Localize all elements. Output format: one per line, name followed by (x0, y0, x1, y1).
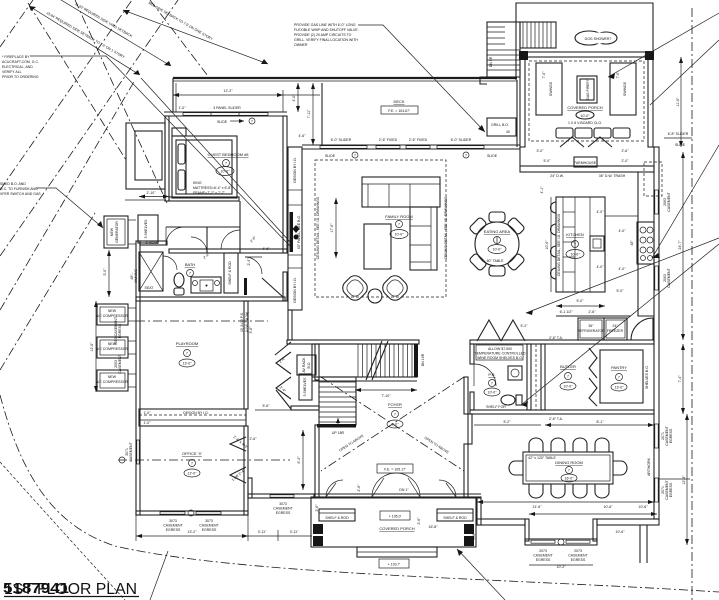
corridor west line (527, 344, 531, 410)
svg-text:2'-6": 2'-6" (589, 310, 597, 314)
shelf rod closet (224, 253, 238, 293)
svg-text:GRILL. VERIFY FINAL LOCATION W: GRILL. VERIFY FINAL LOCATION WITH (294, 38, 358, 42)
svg-text:12'-3": 12'-3" (682, 475, 686, 485)
deck north edge thick (173, 77, 517, 79)
porch north wall (520, 52, 653, 57)
svg-text:4'-0": 4'-0" (292, 94, 296, 102)
butler block north wall (470, 340, 654, 344)
svg-text:10'-6": 10'-6" (639, 505, 649, 509)
office centerline (118, 459, 290, 461)
guest closet south wall / bath top (166, 226, 240, 228)
fireplace black panel (290, 212, 294, 252)
svg-text:7: 7 (186, 352, 188, 356)
svg-text:5'-6": 5'-6" (472, 532, 476, 540)
svg-text:+ 105.0': + 105.0' (389, 515, 402, 519)
mud shelves box (299, 374, 312, 400)
mud av rack box (297, 355, 316, 375)
right closet door arc (439, 480, 456, 497)
svg-text:42" x 120" TABLE: 42" x 120" TABLE (528, 456, 556, 460)
svg-text:ALLOW $7,500: ALLOW $7,500 (488, 347, 512, 351)
corridor dashed center (535, 344, 537, 410)
butler dim 8-1 (545, 424, 654, 426)
guest east wall (283, 116, 287, 253)
svg-text:6'-4": 6'-4" (297, 456, 301, 464)
dining south wall east segment (597, 519, 659, 525)
svg-text:7'-4": 7'-4" (678, 375, 682, 383)
dining west wall stub (468, 414, 472, 444)
svg-text:ELECTRICAL, AND: ELECTRICAL, AND (2, 65, 33, 69)
stair block north wall (287, 340, 419, 344)
svg-text:DESIGN BY I.D.: DESIGN BY I.D. (183, 411, 208, 415)
main house NE corner vertical (deck to family wall) (516, 80, 518, 147)
sofa sectional right leg (410, 207, 437, 270)
svg-text:EGRESS: EGRESS (571, 558, 586, 562)
stool 2 (551, 224, 557, 235)
svg-text:NEW: NEW (110, 227, 114, 236)
stair upper flight outline (312, 344, 417, 377)
svg-text:2'-6": 2'-6" (357, 484, 361, 492)
family interior dim 17-6 (335, 198, 337, 258)
island sink (590, 236, 604, 251)
svg-text:7: 7 (251, 120, 253, 124)
svg-text:5'-6": 5'-6" (263, 404, 271, 408)
svg-text:1'-0": 1'-0" (144, 411, 152, 415)
stair break line (366, 341, 382, 380)
leader line near title (150, 551, 168, 600)
west exterior wall (136, 241, 140, 515)
svg-text:3 PANEL SLIDER: 3 PANEL SLIDER (213, 106, 241, 110)
svg-text:CASEMENT: CASEMENT (667, 267, 671, 287)
svg-text:FOYER: FOYER (388, 402, 402, 407)
stool 3 (551, 246, 557, 257)
bath block south wall (136, 297, 285, 301)
svg-text:13'-0": 13'-0" (615, 386, 625, 390)
svg-text:KITCHEN: KITCHEN (566, 232, 584, 237)
svg-text:ARTWORK: ARTWORK (647, 457, 651, 475)
svg-text:6'-0" SLIDER: 6'-0" SLIDER (331, 138, 352, 142)
svg-text:2'-10": 2'-10" (147, 191, 157, 195)
svg-text:PLAYROOM: PLAYROOM (176, 341, 198, 346)
svg-text:GRILL B.O.: GRILL B.O. (491, 123, 509, 127)
svg-text:7'-0": 7'-0" (542, 71, 546, 79)
compressor 1 (97, 304, 128, 325)
svg-text:SHELVES B.O.: SHELVES B.O. (645, 365, 649, 389)
svg-text:8'-1": 8'-1" (597, 420, 605, 424)
office double door zigzag upper (230, 437, 246, 451)
east mid dim 24-7 (682, 152, 684, 340)
svg-text:2'-6": 2'-6" (250, 437, 258, 441)
svg-text:4'-1": 4'-1" (540, 186, 544, 194)
front wall left segment (248, 494, 314, 498)
left shelf rod closet (319, 509, 355, 521)
svg-text:P.R.: P.R. (488, 372, 495, 377)
dim tie east (659, 478, 690, 480)
deck west edge (172, 78, 174, 112)
svg-text:F.E. = 105.17': F.E. = 105.17' (384, 468, 406, 472)
leader right edge to firepit (608, 13, 719, 77)
kitchen island outer (556, 197, 605, 292)
built-in window seat outer (126, 123, 165, 189)
wall from office to porch vertical (248, 478, 252, 498)
swing right (610, 63, 636, 115)
svg-text:7: 7 (189, 272, 191, 276)
property curve bottom left short (0, 462, 125, 600)
svg-text:2'-6" FIXED: 2'-6" FIXED (379, 138, 398, 142)
family east slider label (655, 146, 658, 148)
svg-text:B.O.: B.O. (307, 361, 311, 368)
svg-text:7: 7 (567, 375, 569, 379)
dim 6-4 vertical (302, 430, 304, 490)
svg-text:NEW: NEW (108, 375, 117, 379)
svg-text:10'-0": 10'-0" (564, 385, 574, 389)
svg-text:SHELF & ROD: SHELF & ROD (228, 261, 232, 285)
lounge chair right (379, 272, 410, 303)
east wall window 4 (655, 478, 658, 502)
setback line F2a2 (dash-dot crossing builtin) (75, 0, 167, 203)
long diagonal leader through guest bed to fireplace corner (141, 78, 291, 243)
svg-text:AV RACK: AV RACK (302, 357, 306, 373)
svg-text:40: 40 (506, 130, 510, 134)
svg-text:FREEZER: FREEZER (607, 329, 624, 333)
guest west wall (165, 116, 169, 201)
kitchen dashed upper cabinet (644, 162, 662, 196)
svg-text:CASEMENT: CASEMENT (533, 554, 553, 558)
svg-text:5'-0": 5'-0" (103, 268, 107, 276)
svg-text:4'-6": 4'-6" (263, 247, 271, 251)
mud west wall (315, 344, 319, 380)
compressor 3 (97, 370, 128, 391)
porch outline (311, 497, 476, 547)
porch south steps v-shapes (560, 137, 584, 147)
lounge chair left (339, 272, 370, 303)
grill box (487, 118, 516, 136)
patio lines below se wall (639, 525, 641, 563)
landing small steps left (480, 77, 487, 84)
svg-text:BUTLER: BUTLER (560, 364, 576, 369)
setback line F2b (dash-dot crossing) (150, 0, 211, 80)
svg-text:3'-11": 3'-11" (290, 530, 299, 534)
front step (357, 547, 437, 557)
dining chairs top row (529, 438, 609, 452)
family room north wall (302, 144, 520, 146)
svg-text:36" D.W. TRASH: 36" D.W. TRASH (599, 174, 626, 178)
svg-text:A/C COMPRESSOR: A/C COMPRESSOR (96, 380, 129, 384)
stool 1 (551, 202, 557, 213)
svg-text:FAMILY ROOM: FAMILY ROOM (385, 214, 412, 219)
svg-text:4'-0": 4'-0" (597, 210, 605, 214)
svg-text:OWNER: OWNER (294, 43, 308, 47)
svg-text:EGRESS: EGRESS (669, 482, 673, 497)
svg-text:3'-0": 3'-0" (537, 149, 545, 153)
elevation box 105 (380, 511, 410, 520)
office right wall (244, 426, 248, 515)
leader from generator note to generator (36, 188, 103, 228)
leader porch corner to bottom (457, 549, 505, 600)
window circle tag (249, 118, 255, 124)
guest bed platform (172, 136, 237, 198)
svg-text:7: 7 (491, 382, 493, 386)
svg-text:4'-0": 4'-0" (619, 267, 627, 271)
built-in window seat inner (135, 131, 162, 180)
svg-text:+ 103.7': + 103.7' (388, 563, 401, 567)
setback line F2a (dash-dot crossing) (28, 3, 126, 160)
svg-text:12'-6": 12'-6" (90, 342, 94, 352)
sofa sectional top (362, 177, 440, 207)
swing left (536, 63, 562, 115)
svg-text:2'-6": 2'-6" (315, 504, 319, 512)
west window office (137, 440, 139, 464)
pr toilet (501, 395, 515, 405)
svg-text:BATH: BATH (185, 262, 195, 267)
svg-text:13'-2": 13'-2" (188, 530, 198, 534)
5 shelves closet (138, 215, 158, 243)
svg-text:4'-0": 4'-0" (597, 265, 605, 269)
island cabinet divisions (562, 197, 564, 292)
svg-text:3073: 3073 (169, 519, 177, 523)
shower (139, 252, 163, 291)
right vertical property dashdot (691, 8, 693, 600)
svg-text:CASEMENT: CASEMENT (568, 554, 588, 558)
leader from gas note to grill (358, 25, 485, 132)
east counter edge (638, 172, 654, 316)
top dim line 12-2 (173, 94, 283, 96)
east wall window 1 (655, 190, 658, 214)
svg-text:G.C. TO FURNISH AND: G.C. TO FURNISH AND (0, 187, 38, 191)
guest room tag circle (223, 160, 230, 167)
svg-text:5'-0": 5'-0" (577, 299, 585, 303)
rounded corner element (631, 318, 653, 340)
porch ceiling dashed border (529, 61, 644, 141)
svg-text:CASEMENT: CASEMENT (273, 507, 293, 511)
svg-text:DN 1": DN 1" (399, 488, 409, 492)
svg-text:24": 24" (612, 324, 618, 328)
property curve bottom left (dash-dot arc) (0, 395, 719, 592)
svg-text:SHELF & ROD: SHELF & ROD (325, 516, 349, 520)
svg-text:KING: KING (193, 181, 202, 185)
svg-text:7: 7 (394, 413, 396, 417)
svg-text:OFFICE 'X': OFFICE 'X' (182, 451, 202, 456)
bottom dim 13-2 (136, 535, 248, 537)
nightstand top (172, 128, 186, 136)
svg-text:EGRESS: EGRESS (536, 558, 551, 562)
hall wall under bedroom (169, 249, 287, 253)
svg-text:SLIDE: SLIDE (675, 143, 686, 147)
stair lower treads (319, 382, 356, 422)
svg-text:CEILING DETAIL, SEE I.D. DRAWI: CEILING DETAIL, SEE I.D. DRAWINGS (557, 213, 561, 276)
svg-text:CEILING DETAIL, SEE I.D. DRAWI: CEILING DETAIL, SEE I.D. DRAWINGS (316, 196, 320, 259)
angled door at hall SE (262, 278, 283, 297)
svg-text:3073: 3073 (205, 519, 213, 523)
family ceiling dashed border (315, 160, 446, 297)
svg-text:F.E. = 104.67': F.E. = 104.67' (388, 109, 410, 113)
round side table (368, 289, 382, 303)
svg-text:6'-1 1/2": 6'-1 1/2" (560, 310, 574, 314)
svg-text:2'-6" T.A.: 2'-6" T.A. (549, 336, 563, 340)
leader right edge to porch (650, 40, 719, 105)
west dim 5-0 (108, 250, 110, 297)
svg-text:A/C COMPRESSOR: A/C COMPRESSOR (96, 314, 129, 318)
left closet door arc (326, 480, 343, 497)
svg-text:7'-10": 7'-10" (382, 394, 392, 398)
svg-text:7: 7 (568, 469, 570, 473)
office windows (160, 512, 185, 514)
svg-text:1 X 6 V-BOARD CLG.: 1 X 6 V-BOARD CLG. (568, 121, 602, 125)
svg-text:2'-6": 2'-6" (622, 149, 630, 153)
svg-text:24'-7": 24'-7" (678, 240, 682, 250)
svg-text:DESIGN BY I.D.: DESIGN BY I.D. (293, 157, 297, 182)
front double door arcs (372, 473, 396, 497)
fridge (578, 318, 604, 340)
closet door arc (166, 227, 184, 245)
coffee table (364, 224, 391, 269)
svg-text:7: 7 (465, 154, 467, 158)
svg-text:2'-6" T.A.: 2'-6" T.A. (549, 417, 563, 421)
svg-text:5 SHELVES: 5 SHELVES (303, 377, 307, 396)
entry wall across porch (314, 493, 481, 495)
playroom right wall (244, 301, 248, 409)
mud west zigzag doors (275, 342, 291, 355)
svg-text:GAS FIREPIT: GAS FIREPIT (586, 77, 590, 100)
dining south dim line (477, 501, 654, 503)
bath toilet (174, 273, 184, 287)
svg-text:48": 48" (630, 240, 634, 246)
eating chairs (469, 212, 525, 276)
freezer (604, 318, 627, 340)
svg-text:EATING AREA: EATING AREA (484, 229, 511, 234)
svg-text:2073: 2073 (574, 549, 582, 553)
svg-text:GENERATOR: GENERATOR (115, 221, 119, 243)
setback dimension line D1 with arrows (29, 6, 140, 75)
svg-text:REFRIGERATOR: REFRIGERATOR (577, 329, 605, 333)
svg-text:7: 7 (398, 223, 400, 227)
svg-text:1'-0": 1'-0" (179, 106, 187, 110)
svg-text:DN 5R: DN 5R (489, 56, 493, 67)
foyer west wall (315, 425, 319, 497)
svg-text:9'-0": 9'-0" (392, 423, 400, 427)
leader right edge to key shelf (521, 244, 719, 405)
svg-text:36": 36" (588, 324, 594, 328)
svg-text:3073: 3073 (279, 502, 287, 506)
setback line corner (dash-dot) (0, 0, 33, 47)
svg-text:SLIDE: SLIDE (487, 154, 498, 158)
eating area table (475, 222, 519, 266)
svg-text:SHED B.O. AND: SHED B.O. AND (0, 182, 26, 186)
svg-text:TEMPERATURE CONTROLLED: TEMPERATURE CONTROLLED (474, 352, 526, 356)
svg-text:CASEMENT: CASEMENT (163, 524, 183, 528)
corridor wall chase to stairs (288, 310, 292, 340)
dining chair west end (509, 461, 523, 475)
guest bed headboard (185, 140, 187, 194)
svg-text:10'-0": 10'-0" (488, 391, 498, 395)
foyer x dashdot (321, 377, 464, 471)
svg-text:2'-6": 2'-6" (417, 517, 421, 525)
svg-text:SHELF FOR: SHELF FOR (486, 405, 506, 409)
design beam playroom/office (139, 409, 246, 426)
setback line F1d (dash-dot) (0, 80, 135, 310)
svg-text:10'-0": 10'-0" (571, 253, 581, 257)
svg-text:EGRESS: EGRESS (166, 528, 181, 532)
svg-text:DESIGN BY I.D.: DESIGN BY I.D. (293, 277, 297, 302)
svg-text:5'-0": 5'-0" (544, 159, 552, 163)
svg-text:5'-0": 5'-0" (617, 289, 625, 293)
svg-text:AWNING: AWNING (134, 269, 138, 284)
svg-text:(2) 2x10 P.S.: (2) 2x10 P.S. (240, 312, 244, 332)
pantry inner room (600, 350, 643, 403)
bump south wall with windows (525, 539, 597, 545)
pillow 2 (178, 170, 185, 190)
dining table (523, 452, 613, 484)
svg-text:ACUCRAFT.COM, G.C.: ACUCRAFT.COM, G.C. (2, 60, 39, 64)
setback line F1b (dash-dot) (0, 0, 132, 190)
svg-text:DECK: DECK (393, 99, 404, 104)
guest south wall (169, 197, 239, 201)
east outer dim 12-3 (686, 414, 688, 545)
guest ceiling height ellipse (216, 167, 234, 176)
setback line F1e (dash-dot) (0, 213, 95, 370)
svg-text:7: 7 (225, 162, 227, 166)
svg-text:WINE ROOM SHELVES B.O.: WINE ROOM SHELVES B.O. (477, 356, 523, 360)
stair landing dim (355, 389, 417, 391)
svg-text:5'-2": 5'-2" (521, 324, 529, 328)
svg-text:SWINGS: SWINGS (623, 81, 627, 96)
svg-text:EGRESS: EGRESS (276, 511, 291, 515)
corridor east line (541, 344, 545, 410)
setback line F1c (dash-dot) (0, 0, 178, 256)
hall door arc (245, 257, 262, 274)
butler block south wall (470, 410, 654, 414)
svg-text:4'-0": 4'-0" (619, 229, 627, 233)
bump east wall (593, 519, 597, 541)
farmhouse sink box (574, 157, 597, 167)
svg-text:CASEMENT: CASEMENT (129, 441, 133, 461)
fe box (377, 464, 413, 473)
svg-text:6'-0" SLIDER: 6'-0" SLIDER (451, 138, 472, 142)
svg-text:3'-6": 3'-6" (249, 326, 253, 334)
svg-text:DN 16R: DN 16R (421, 353, 425, 366)
svg-text:16'-8": 16'-8" (429, 525, 439, 529)
foyer east wall stub upper (464, 377, 468, 414)
svg-text:12'-0": 12'-0" (188, 472, 198, 476)
svg-text:EGRESS: EGRESS (118, 323, 122, 338)
porch east wall (648, 57, 653, 147)
svg-text:GUEST BEDROOM #5: GUEST BEDROOM #5 (207, 152, 249, 157)
svg-text:5187941: 5187941 (3, 580, 69, 597)
family windows (320, 146, 367, 149)
stool 4 (551, 268, 557, 279)
svg-text:CASEMENT: CASEMENT (199, 524, 219, 528)
svg-text:13'-0": 13'-0" (183, 362, 193, 366)
second dim line (529, 513, 657, 515)
svg-text:NEW: NEW (108, 309, 117, 313)
svg-text:FARMHOUSE: FARMHOUSE (574, 161, 597, 165)
deck inner divider at family corner (321, 83, 323, 145)
svg-text:60" PANEL, SEE B.O.: 60" PANEL, SEE B.O. (297, 215, 301, 249)
svg-text:EGRESS: EGRESS (202, 528, 217, 532)
svg-text:* FIREPLACE BY: * FIREPLACE BY (2, 55, 30, 59)
dining chairs bottom row (529, 484, 609, 498)
porch west wall (520, 57, 525, 147)
leader right edge to range (652, 145, 719, 258)
svg-text:7: 7 (191, 462, 193, 466)
range (637, 222, 654, 264)
west dim 12-6 (95, 301, 97, 392)
svg-text:10'-0": 10'-0" (395, 233, 405, 237)
pr west wall lower (470, 392, 474, 410)
svg-text:VERIFY ALL: VERIFY ALL (2, 70, 22, 74)
svg-text:2'-0": 2'-0" (622, 159, 630, 163)
office south wall (136, 511, 248, 515)
butler pantry zigzag doors (589, 348, 597, 378)
